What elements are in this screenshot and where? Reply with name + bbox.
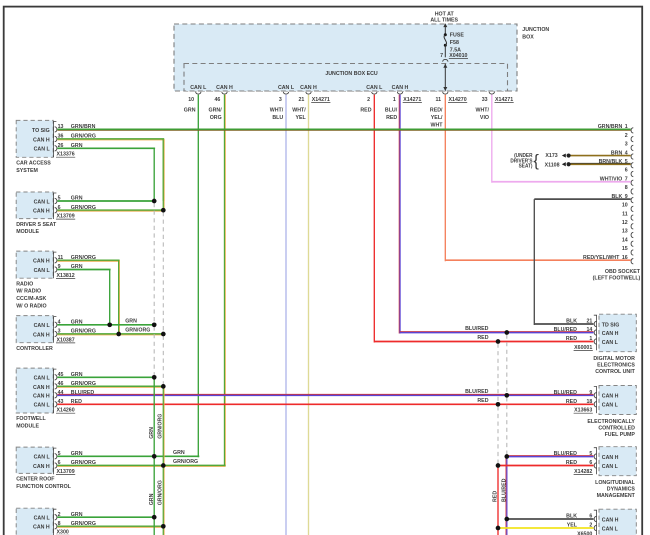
svg-text:CAN H: CAN H <box>602 517 619 523</box>
svg-text:W/ O RADIO: W/ O RADIO <box>16 303 47 309</box>
svg-text:DIGITAL MOTOR: DIGITAL MOTOR <box>593 356 635 362</box>
svg-text:10: 10 <box>622 202 628 208</box>
svg-text:CCC/M-ASK: CCC/M-ASK <box>16 296 46 302</box>
svg-text:LONGITUDINAL: LONGITUDINAL <box>595 480 635 486</box>
svg-text:12: 12 <box>622 220 628 226</box>
svg-text:X300: X300 <box>57 530 69 535</box>
svg-text:CENTER ROOF: CENTER ROOF <box>16 476 55 482</box>
svg-text:RED: RED <box>566 460 577 466</box>
svg-text:DRIVER'S: DRIVER'S <box>510 158 533 164</box>
svg-text:18: 18 <box>586 399 592 405</box>
svg-text:CAN H: CAN H <box>33 394 50 400</box>
svg-text:VIO: VIO <box>480 115 490 121</box>
svg-text:CAN H: CAN H <box>602 331 619 337</box>
svg-text:CAN L: CAN L <box>34 403 51 409</box>
svg-text:TO SIG: TO SIG <box>32 128 50 134</box>
svg-text:RED: RED <box>493 491 499 502</box>
svg-text:JUNCTION BOX ECU: JUNCTION BOX ECU <box>325 71 377 77</box>
svg-text:14: 14 <box>622 237 629 243</box>
svg-text:1: 1 <box>393 97 396 103</box>
svg-text:BLU/RED: BLU/RED <box>554 451 577 457</box>
svg-text:CAR ACCESS: CAR ACCESS <box>16 160 51 166</box>
svg-text:WHT/VIO: WHT/VIO <box>600 176 623 182</box>
svg-text:ELECTRONICS: ELECTRONICS <box>597 362 635 368</box>
svg-text:FUNCTION CONTROL: FUNCTION CONTROL <box>16 484 71 490</box>
svg-text:33: 33 <box>482 97 488 103</box>
svg-text:CONTROLLED: CONTROLLED <box>598 425 635 431</box>
svg-text:46: 46 <box>214 97 220 103</box>
svg-text:GRN: GRN <box>149 427 155 439</box>
svg-text:FUSE: FUSE <box>450 32 464 38</box>
svg-text:10: 10 <box>188 97 194 103</box>
svg-text:BLK: BLK <box>566 513 577 519</box>
svg-text:CAN H: CAN H <box>33 525 50 531</box>
svg-text:RED: RED <box>477 335 488 341</box>
svg-text:GRN/ORG: GRN/ORG <box>157 414 163 439</box>
svg-text:8: 8 <box>625 185 628 191</box>
svg-text:GRN: GRN <box>149 494 155 506</box>
svg-text:CONTROLLER: CONTROLLER <box>16 346 53 352</box>
svg-text:CAN L: CAN L <box>366 85 383 91</box>
svg-text:CAN H: CAN H <box>602 455 619 461</box>
svg-text:CAN L: CAN L <box>34 268 51 274</box>
svg-text:TD SIG: TD SIG <box>602 322 620 328</box>
svg-text:9: 9 <box>589 390 592 396</box>
svg-text:WHT: WHT <box>430 122 443 128</box>
svg-text:CAN L: CAN L <box>602 526 619 532</box>
svg-text:1: 1 <box>589 336 592 342</box>
svg-text:X6500: X6500 <box>577 531 592 535</box>
svg-text:1: 1 <box>625 124 628 130</box>
svg-text:(LEFT FOOTWELL): (LEFT FOOTWELL) <box>593 275 641 281</box>
svg-text:CAN L: CAN L <box>602 340 619 346</box>
svg-text:{: { <box>533 152 539 170</box>
svg-text:CAN H: CAN H <box>33 259 50 265</box>
svg-text:CAN L: CAN L <box>34 147 51 153</box>
svg-text:CONTROL UNIT: CONTROL UNIT <box>595 369 635 375</box>
svg-text:BLK: BLK <box>611 194 622 200</box>
svg-text:DRIVER S SEAT: DRIVER S SEAT <box>16 222 57 228</box>
svg-text:7: 7 <box>440 53 443 59</box>
svg-text:BLU/RED: BLU/RED <box>554 390 577 396</box>
svg-text:OBD SOCKET: OBD SOCKET <box>605 269 641 275</box>
svg-text:13: 13 <box>622 229 628 235</box>
svg-text:21: 21 <box>586 318 592 324</box>
svg-text:RED/YEL/WHT: RED/YEL/WHT <box>583 255 620 261</box>
svg-text:14: 14 <box>586 327 593 333</box>
svg-text:CAN L: CAN L <box>34 455 51 461</box>
svg-text:MODULE: MODULE <box>16 229 39 235</box>
svg-text:JUNCTION: JUNCTION <box>522 27 549 33</box>
svg-text:GRN: GRN <box>184 107 196 113</box>
svg-text:CAN L: CAN L <box>34 515 51 521</box>
svg-text:6: 6 <box>589 513 592 519</box>
svg-text:CAN L: CAN L <box>34 323 51 329</box>
svg-text:21: 21 <box>298 97 304 103</box>
svg-text:ALL TIMES: ALL TIMES <box>430 17 458 23</box>
svg-text:W/ RADIO: W/ RADIO <box>16 289 42 295</box>
svg-text:CAN L: CAN L <box>278 85 295 91</box>
svg-text:BLU: BLU <box>272 115 283 121</box>
svg-text:RED: RED <box>360 107 371 113</box>
svg-text:CAN L: CAN L <box>602 403 619 409</box>
svg-text:BOX: BOX <box>522 34 534 40</box>
svg-text:F58: F58 <box>450 40 459 46</box>
svg-text:CAN H: CAN H <box>33 208 50 214</box>
svg-text:CAN H: CAN H <box>33 464 50 470</box>
svg-text:SYSTEM: SYSTEM <box>16 168 38 174</box>
svg-text:BLU/RED: BLU/RED <box>465 326 488 332</box>
svg-text:5: 5 <box>589 451 592 457</box>
svg-text:X1108: X1108 <box>545 162 560 168</box>
svg-text:RED: RED <box>477 398 488 404</box>
svg-text:BLU/RED: BLU/RED <box>501 479 507 502</box>
svg-text:GRN/: GRN/ <box>209 107 223 113</box>
svg-text:11: 11 <box>436 97 442 103</box>
svg-text:YEL/: YEL/ <box>431 115 443 121</box>
svg-text:BRN/BLK: BRN/BLK <box>599 159 623 165</box>
svg-text:11: 11 <box>622 211 628 217</box>
svg-text:GRN: GRN <box>173 450 185 456</box>
svg-text:2: 2 <box>589 522 592 528</box>
svg-text:(UNDER: (UNDER <box>514 153 533 159</box>
svg-text:2: 2 <box>367 97 370 103</box>
svg-text:CAN H: CAN H <box>392 85 409 91</box>
svg-text:BLK: BLK <box>566 318 577 324</box>
svg-text:BRN: BRN <box>611 150 622 156</box>
svg-text:3: 3 <box>625 141 628 147</box>
svg-text:BLU/RED: BLU/RED <box>554 327 577 333</box>
svg-text:SEAT): SEAT) <box>519 164 533 170</box>
svg-text:DYNAMICS: DYNAMICS <box>607 486 635 492</box>
svg-text:3: 3 <box>279 97 282 103</box>
svg-text:CAN H: CAN H <box>300 85 317 91</box>
svg-text:CAN H: CAN H <box>33 137 50 143</box>
svg-text:MANAGEMENT: MANAGEMENT <box>597 493 636 499</box>
svg-text:RED: RED <box>386 115 397 121</box>
svg-text:CAN H: CAN H <box>33 332 50 338</box>
svg-text:CAN H: CAN H <box>216 85 233 91</box>
svg-text:MODULE: MODULE <box>16 423 39 429</box>
svg-text:GRN/ORG: GRN/ORG <box>125 328 150 334</box>
svg-text:CAN L: CAN L <box>34 199 51 205</box>
svg-text:RED: RED <box>566 399 577 405</box>
svg-text:BLU/RED: BLU/RED <box>465 389 488 395</box>
svg-text:RED/: RED/ <box>430 107 443 113</box>
svg-text:RED: RED <box>566 336 577 342</box>
svg-text:CAN H: CAN H <box>602 394 619 400</box>
svg-text:GRN/BRN: GRN/BRN <box>598 124 623 130</box>
svg-text:WHT/: WHT/ <box>270 107 284 113</box>
svg-text:6: 6 <box>625 168 628 174</box>
svg-text:WHT/: WHT/ <box>476 107 490 113</box>
svg-text:CAN L: CAN L <box>602 464 619 470</box>
svg-text:CAN H: CAN H <box>33 385 50 391</box>
svg-text:2: 2 <box>625 133 628 139</box>
svg-text:YEL: YEL <box>295 115 306 121</box>
svg-text:YEL: YEL <box>567 522 578 528</box>
svg-text:ELECTRONICALLY: ELECTRONICALLY <box>587 419 635 425</box>
svg-text:BLU/: BLU/ <box>385 107 398 113</box>
svg-text:FOOTWELL: FOOTWELL <box>16 416 46 422</box>
svg-text:WHT/: WHT/ <box>292 107 306 113</box>
svg-text:X173: X173 <box>545 153 557 159</box>
svg-text:CAN L: CAN L <box>190 85 207 91</box>
svg-text:GRN/ORG: GRN/ORG <box>173 459 198 465</box>
svg-text:15: 15 <box>622 246 628 252</box>
svg-text:GRN/ORG: GRN/ORG <box>157 480 163 505</box>
svg-text:FUEL PUMP: FUEL PUMP <box>605 432 636 438</box>
svg-text:ORG: ORG <box>210 115 222 121</box>
svg-text:6: 6 <box>589 460 592 466</box>
svg-text:CAN L: CAN L <box>34 376 51 382</box>
svg-text:GRN: GRN <box>125 318 137 324</box>
svg-text:RADIO: RADIO <box>16 281 34 287</box>
